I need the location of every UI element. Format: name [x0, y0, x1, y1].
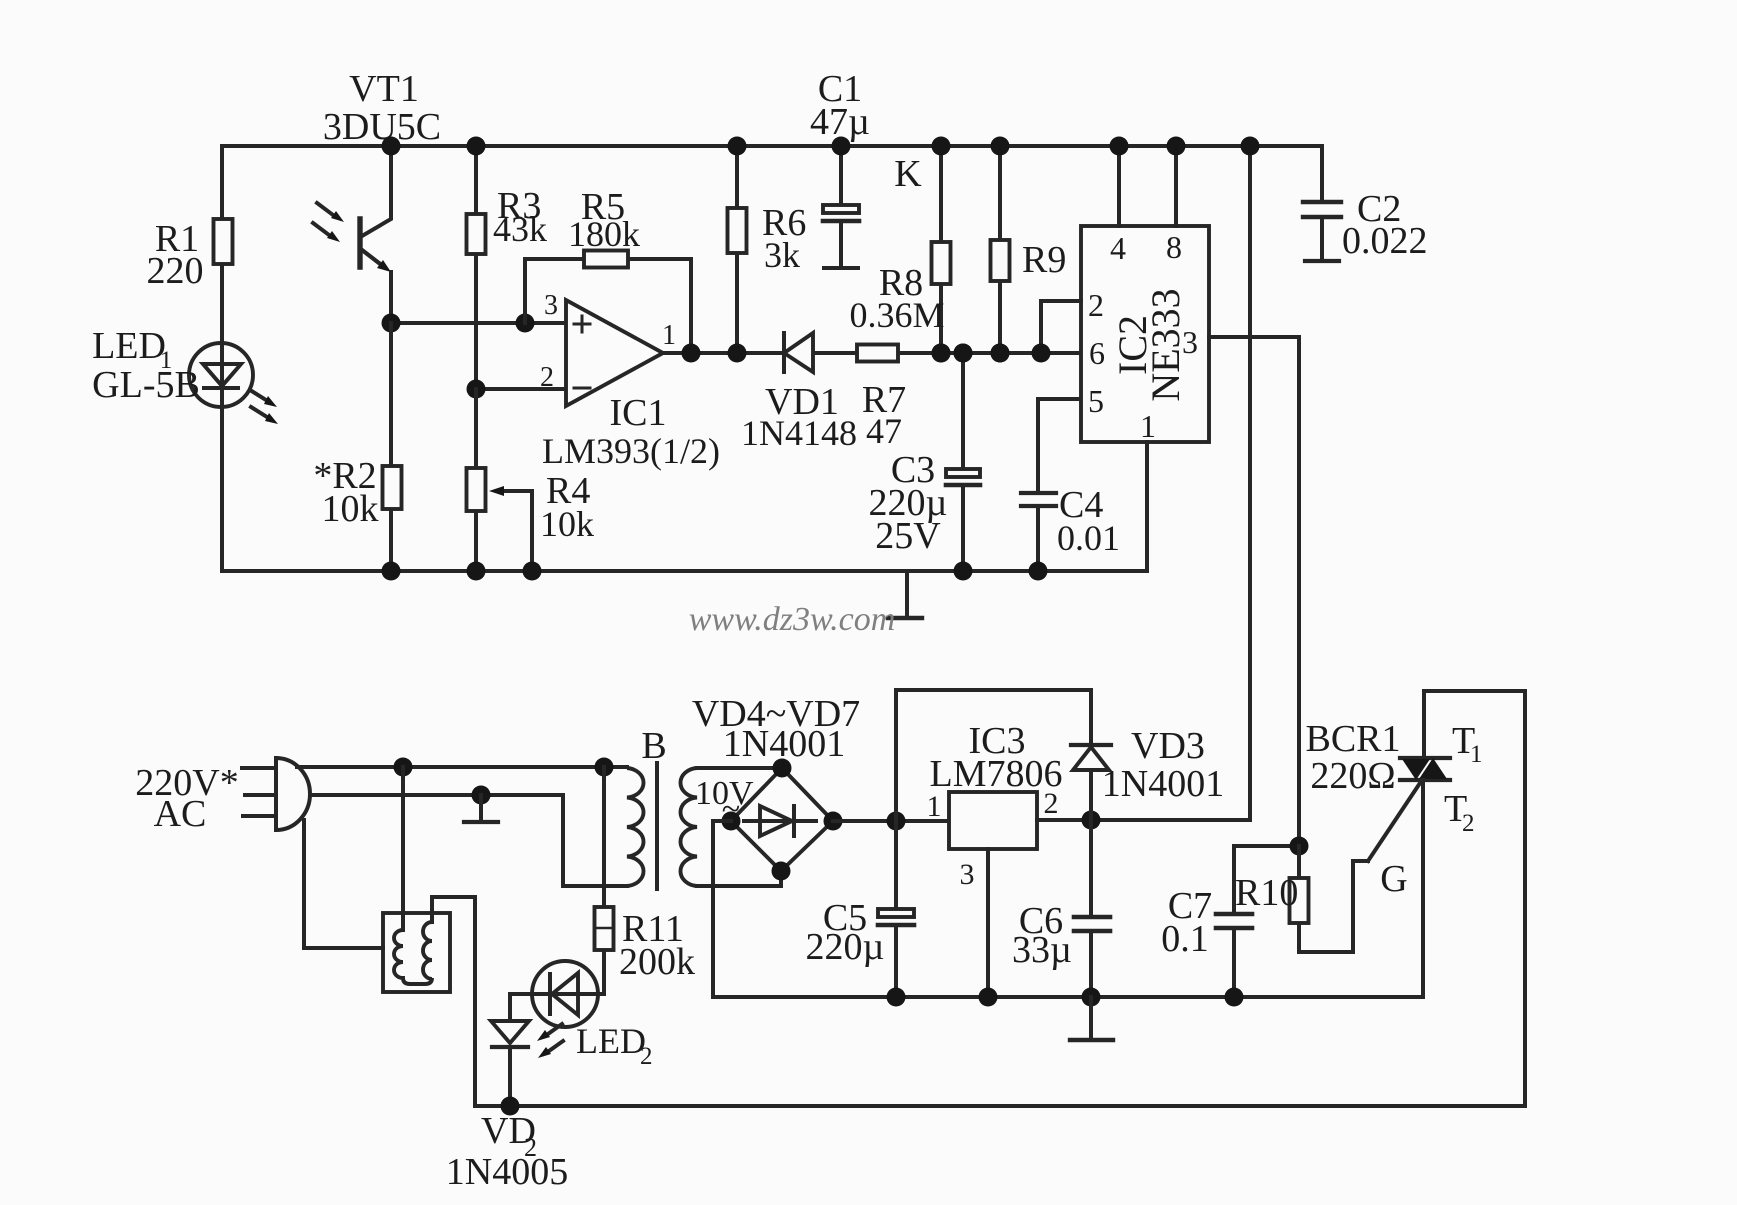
svg-text:AC: AC	[154, 793, 207, 835]
svg-text:R9: R9	[1022, 239, 1066, 281]
wire top supply rail	[222, 144, 1322, 148]
svg-text:5: 5	[1088, 383, 1104, 419]
svg-text:4: 4	[1110, 230, 1126, 266]
svg-text:VD3: VD3	[1131, 725, 1205, 767]
resistor R7 47	[857, 345, 906, 452]
svg-text:GL-5B: GL-5B	[92, 364, 200, 406]
diode VD3 1N4001 (across regulator)	[896, 690, 1224, 821]
triac BCR1 220ohm	[1305, 691, 1482, 997]
wire IC2 pin8 lead	[1167, 137, 1186, 227]
svg-text:B: B	[641, 725, 666, 767]
svg-text:10k: 10k	[322, 488, 379, 530]
resistor R1	[147, 218, 233, 292]
svg-text:K: K	[894, 153, 922, 195]
wire plug bottom to load box	[304, 820, 383, 948]
capacitor C4 0.01	[1021, 399, 1120, 581]
wire IC2 pin1 lead to ground rail	[1145, 442, 1149, 571]
svg-text:8: 8	[1166, 229, 1182, 265]
IC U3 LM7806 (IC3 box)	[927, 720, 1063, 891]
wire IC3 pin2 +6V output	[1037, 811, 1250, 830]
load box (controlled appliance)	[383, 767, 475, 992]
svg-text:LED: LED	[576, 1021, 646, 1061]
svg-text:www.dz3w.com: www.dz3w.com	[689, 601, 896, 638]
wire bridge + output to IC3 pin1	[833, 812, 949, 831]
capacitor C2 0.022	[1303, 146, 1428, 262]
wire gate diagonal to triac	[1368, 783, 1420, 900]
svg-text:1: 1	[1140, 408, 1156, 444]
svg-text:LM7806: LM7806	[930, 753, 1063, 795]
svg-text:43k: 43k	[493, 209, 547, 249]
wire left branch (R1/LED1)	[220, 146, 224, 571]
svg-text:1N4001: 1N4001	[1102, 763, 1224, 805]
node dots on bottom rail	[382, 562, 542, 581]
ground (power supply)	[1070, 997, 1113, 1040]
svg-text:2: 2	[1088, 287, 1104, 323]
capacitor C7 0.1	[1161, 837, 1308, 1007]
svg-text:25V: 25V	[875, 515, 941, 557]
svg-text:3k: 3k	[764, 235, 800, 275]
svg-text:47: 47	[866, 411, 902, 451]
resistor R10 (gate)	[1235, 846, 1368, 952]
node dots on top rail	[382, 137, 1010, 156]
svg-text:180k: 180k	[568, 214, 640, 254]
resistor R11 200k	[595, 767, 696, 994]
IC U2 NE333 (IC2 box)	[1081, 226, 1209, 444]
watermark www.dz3w.com	[689, 601, 896, 638]
svg-text:33µ: 33µ	[1012, 929, 1072, 971]
bridge rectifier VD4~VD7 1N4001	[692, 693, 860, 881]
resistor R6 3k	[728, 146, 807, 363]
wire 0V bottom rail of power supply	[713, 995, 1422, 999]
svg-text:0.01: 0.01	[1057, 518, 1120, 558]
svg-text:1: 1	[662, 320, 676, 351]
wire pin2 (y=389)	[467, 380, 567, 399]
svg-text:G: G	[1380, 858, 1407, 900]
node K	[894, 153, 922, 195]
svg-text:220µ: 220µ	[806, 926, 885, 968]
LED LED2 (power indicator)	[510, 961, 653, 1070]
wire AC line1 (top, y=767)	[297, 758, 627, 777]
svg-text:220: 220	[147, 250, 204, 292]
wire IC3 pin3 to 0V rail	[979, 849, 998, 1007]
op-amp IC1 LM393(1/2)	[540, 290, 720, 471]
svg-text:1: 1	[1470, 741, 1483, 768]
transformer B primary	[627, 725, 667, 886]
capacitor C3 220u 25V	[869, 344, 980, 581]
svg-text:BCR1: BCR1	[1305, 718, 1400, 760]
svg-text:0.022: 0.022	[1342, 220, 1428, 262]
svg-text:3: 3	[544, 290, 558, 321]
svg-text:2: 2	[640, 1043, 653, 1070]
diode VD2 1N4005	[446, 994, 568, 1193]
phototransistor VT1 3DU5C	[313, 68, 441, 323]
wire load box to triac loop	[473, 897, 477, 1106]
LED LED1 GL-5B	[92, 325, 278, 424]
wire bridge left vertex down to 0V rail	[713, 821, 731, 997]
svg-text:1N4005: 1N4005	[446, 1151, 568, 1193]
wire bottom rail of top section	[222, 569, 1147, 573]
wire IC2 pin2 tie to pin6	[1032, 301, 1082, 363]
wire node to pin3 (y=323)	[382, 314, 567, 333]
resistor R8 0.36M	[849, 146, 950, 363]
svg-text:2: 2	[1462, 810, 1475, 837]
resistor R2 10k	[313, 323, 401, 571]
wire +6V feed from regulator to top rail	[1241, 137, 1260, 821]
AC plug 220V	[135, 758, 310, 835]
diode VD1 1N4148	[741, 333, 857, 453]
svg-text:3DU5C: 3DU5C	[323, 106, 441, 148]
svg-text:0.36M: 0.36M	[849, 295, 944, 335]
wire IC2 pin4 lead	[1110, 137, 1129, 227]
node dots on y353 wire	[932, 344, 1010, 363]
wire T1 load loop (right side + bottom return)	[475, 691, 1525, 1106]
resistor R9	[991, 146, 1067, 363]
svg-text:1N4148: 1N4148	[741, 413, 857, 453]
wire AC line2 (y=795) to primary bottom	[310, 786, 627, 887]
svg-text:220Ω: 220Ω	[1310, 755, 1395, 797]
transformer secondary 10V	[680, 768, 782, 886]
capacitor C5 220u	[806, 821, 914, 1007]
svg-text:10k: 10k	[540, 504, 594, 544]
svg-text:IC1: IC1	[610, 392, 667, 434]
resistor R3 43k	[467, 146, 548, 389]
svg-text:VT1: VT1	[349, 68, 419, 110]
svg-text:3: 3	[960, 858, 975, 891]
svg-text:200k: 200k	[619, 941, 695, 983]
ground (AC neutral stub)	[464, 795, 498, 822]
svg-text:LM393(1/2): LM393(1/2)	[542, 431, 720, 471]
svg-text:LED: LED	[92, 325, 166, 367]
svg-text:6: 6	[1089, 335, 1105, 371]
capacitor C6 33u	[1012, 820, 1110, 1007]
wire op-amp output (y=353)	[663, 344, 1081, 363]
svg-text:1N4001: 1N4001	[723, 723, 845, 765]
transformer core	[655, 763, 659, 889]
capacitor C1 47u	[810, 68, 870, 268]
potentiometer R4 10k	[467, 389, 595, 571]
wire IC2 pin3 output to R10 node	[1209, 337, 1299, 846]
svg-text:R10: R10	[1235, 872, 1298, 914]
resistor R5 180k + feedback loop	[525, 186, 691, 353]
svg-text:0.1: 0.1	[1161, 918, 1209, 960]
svg-text:NE333: NE333	[1143, 288, 1188, 401]
svg-text:2: 2	[540, 362, 554, 393]
ground (top section)	[888, 571, 922, 618]
